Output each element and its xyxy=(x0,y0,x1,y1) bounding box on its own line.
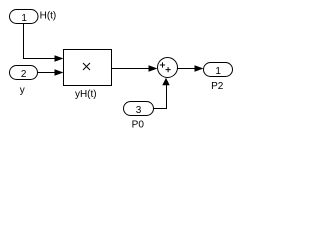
svg-text:y: y xyxy=(20,85,25,96)
svg-text:yH(t): yH(t) xyxy=(75,89,97,100)
svg-text:2: 2 xyxy=(21,69,27,80)
svg-text:P2: P2 xyxy=(211,81,224,92)
svg-text:1: 1 xyxy=(215,66,221,77)
svg-text:3: 3 xyxy=(136,105,142,116)
svg-text:1: 1 xyxy=(21,13,27,24)
svg-text:H(t): H(t) xyxy=(40,11,57,22)
svg-text:P0: P0 xyxy=(132,119,145,130)
